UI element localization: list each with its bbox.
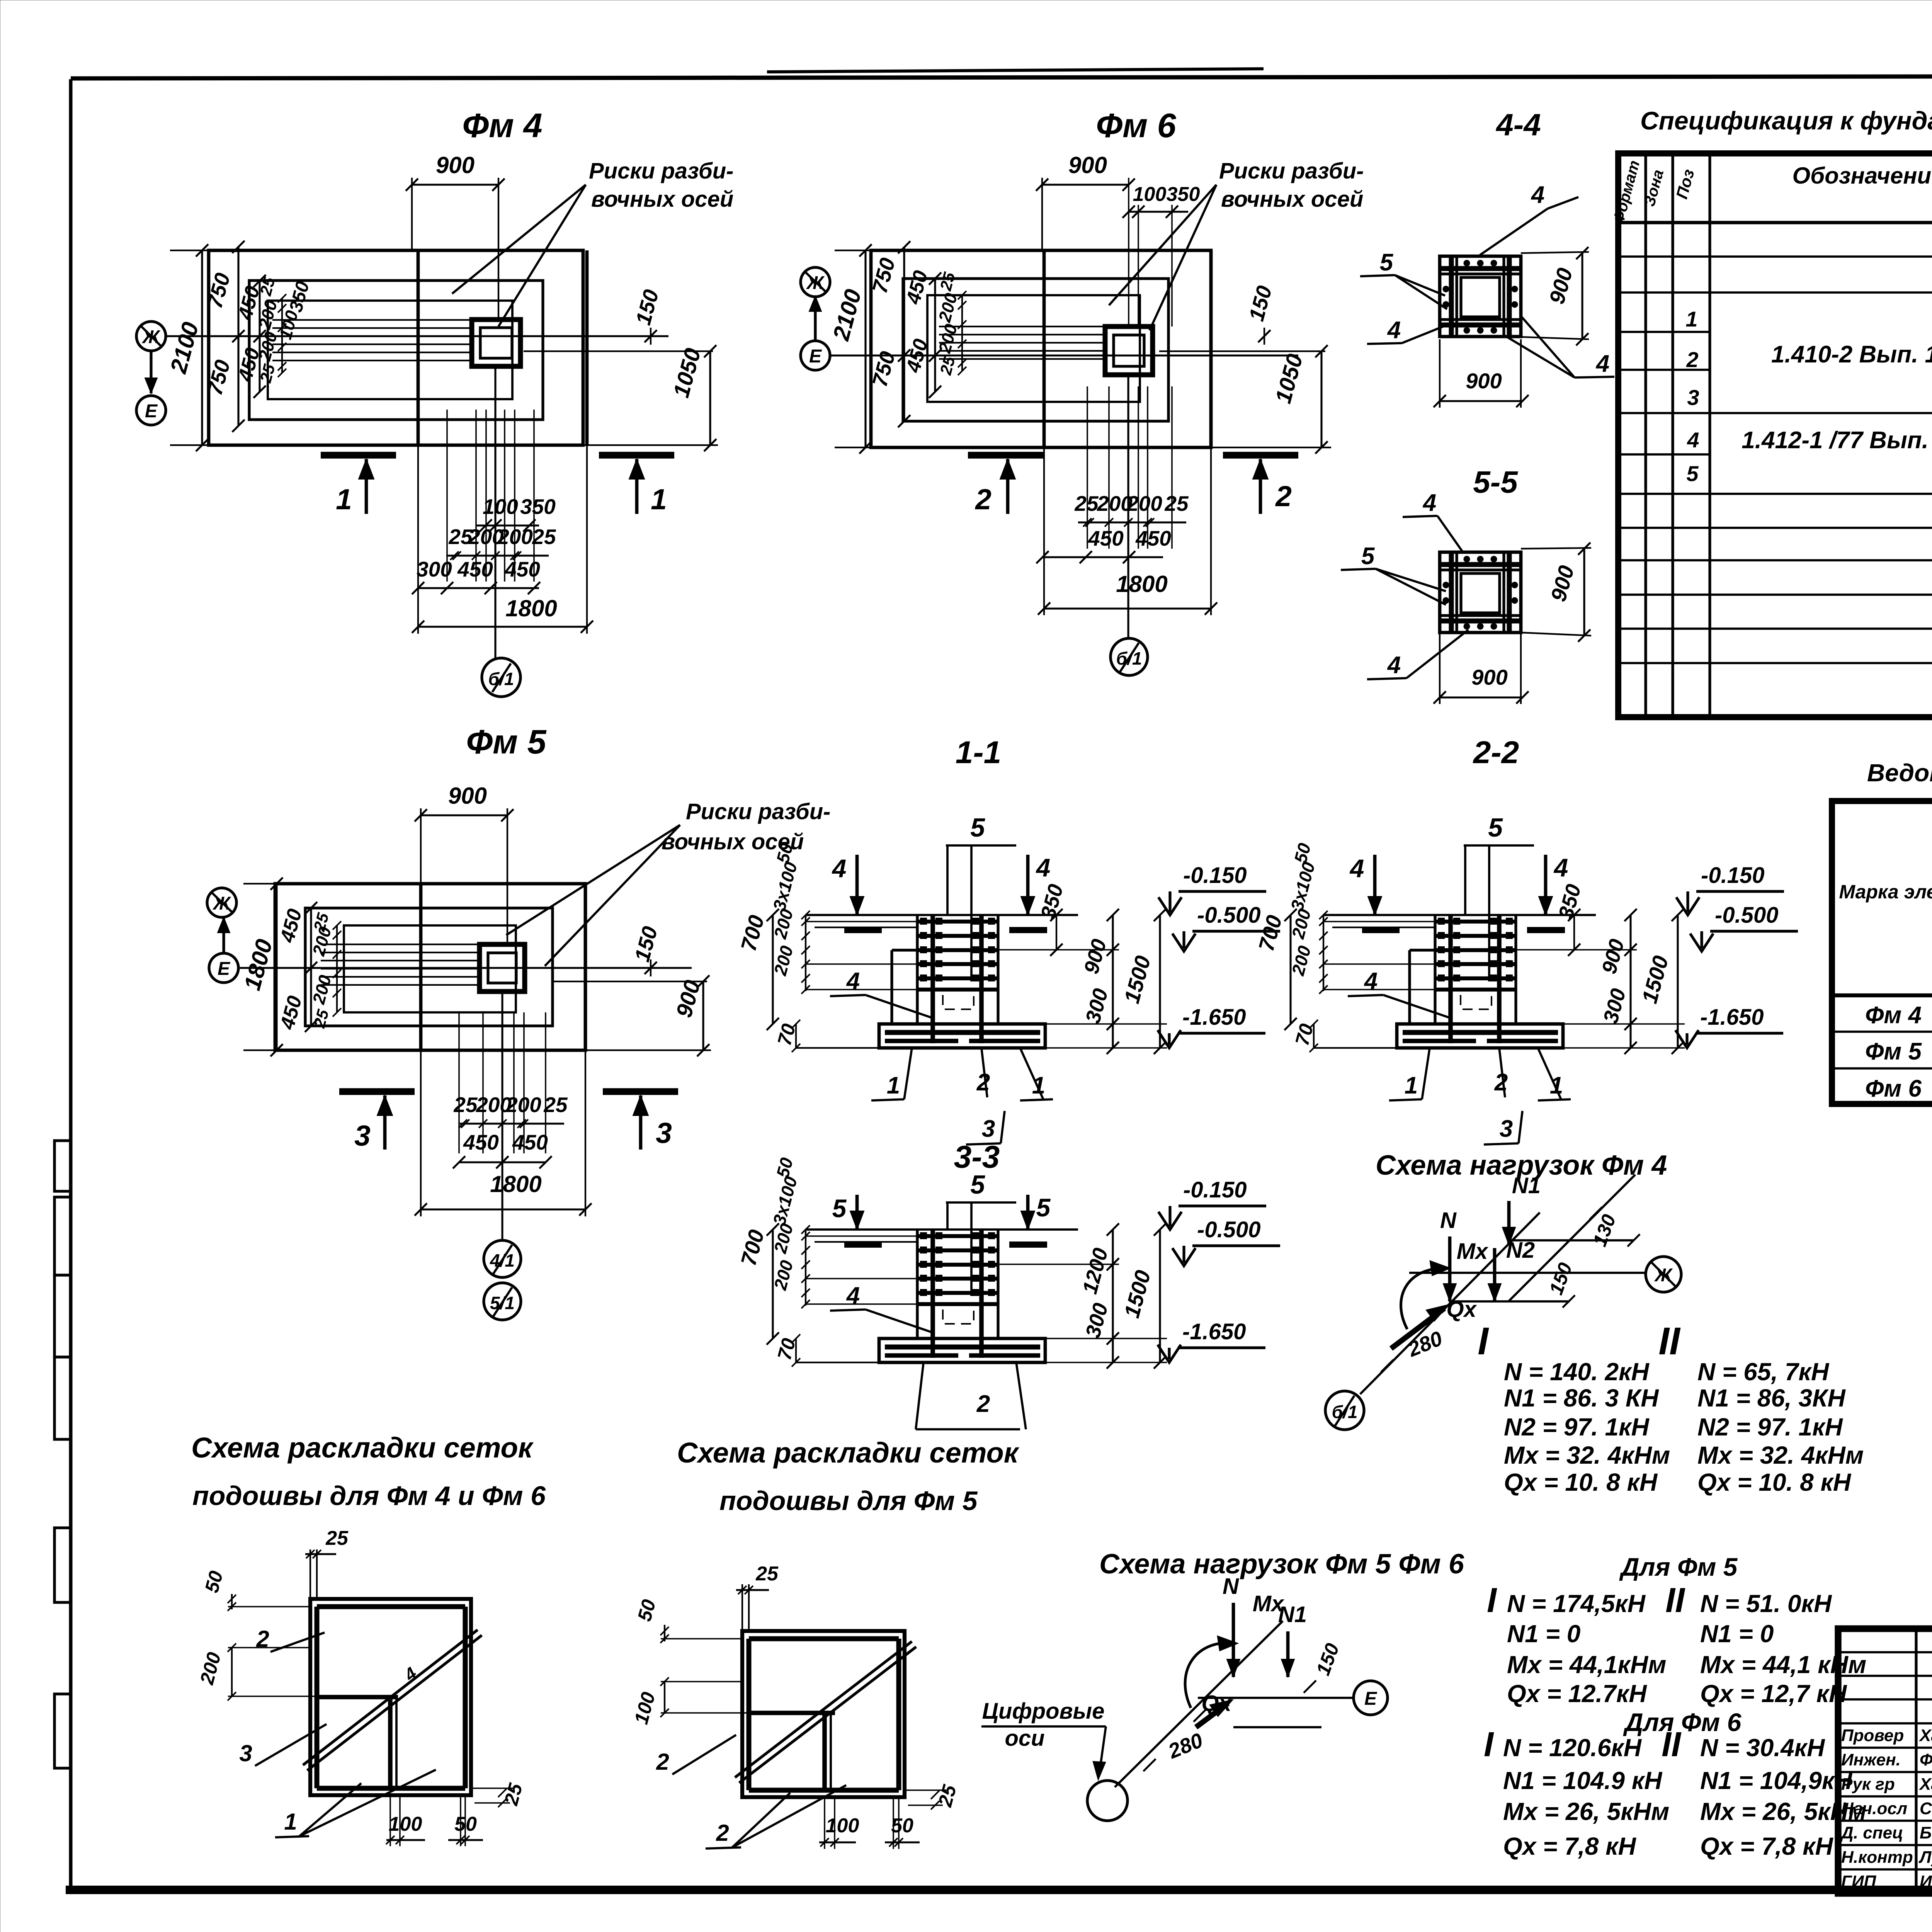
FM6 band right line [1209,250,1213,447]
svg-text:1-1: 1-1 [956,735,1002,770]
svg-text:Риски разби-: Риски разби- [686,799,830,824]
svg-text:Мх = 44,1кНм: Мх = 44,1кНм [1507,1651,1666,1679]
svg-text:Д. спец: Д. спец [1840,1823,1903,1842]
svg-text:Фм 4: Фм 4 [1865,1002,1922,1029]
FM6 axis circle Zh [801,267,830,297]
svg-text:Обозначение: Обозначение [1792,163,1932,189]
FM6 section mark 2 left [968,452,1043,458]
svg-text:4: 4 [1422,490,1436,516]
svg-text:Е: Е [809,346,822,367]
FM4 step rect 2 [268,301,512,399]
svg-text:Мх = 32. 4кНм: Мх = 32. 4кНм [1697,1441,1864,1469]
svg-text:450: 450 [1088,526,1124,550]
svg-text:Е: Е [218,959,231,979]
svg-text:1: 1 [1685,307,1697,331]
svg-text:2: 2 [656,1749,669,1775]
svg-text:2-2: 2-2 [1473,735,1519,770]
ground line top [805,914,1078,916]
svg-text:II: II [1658,1320,1681,1363]
svg-text:200: 200 [1126,492,1162,515]
svg-text:450: 450 [504,557,540,581]
slab mesh bar [885,1345,1040,1350]
svg-text:Ханин: Ханин [1918,1775,1932,1794]
fold marks left edge [54,1141,71,1191]
FM4 axis line horizontal Zh [165,335,668,337]
mesh 3 inner [317,1695,398,1699]
FM5 mesh lines [321,944,480,945]
FM5 step rect 2 [344,925,516,1012]
svg-text:450: 450 [463,1130,499,1154]
svg-text:N: N [1223,1574,1239,1599]
svg-text:подошвы для Фм 5: подошвы для Фм 5 [719,1486,978,1516]
svg-text:I: I [1478,1320,1489,1363]
svg-text:900: 900 [1068,152,1107,178]
svg-text:подошвы для Фм 4 и Фм 6: подошвы для Фм 4 и Фм 6 [192,1481,546,1511]
svg-text:5: 5 [1686,461,1699,486]
svg-text:4-4: 4-4 [1495,107,1541,142]
pedestal step [890,950,893,1024]
svg-text:N = 51. 0кН: N = 51. 0кН [1700,1590,1832,1617]
top border overdraw segment [767,69,1264,72]
svg-text:4: 4 [1036,853,1051,882]
horizontal axis to Zh [1409,1272,1645,1274]
svg-text:II: II [1665,1581,1685,1620]
FM6 section mark 2 right [1223,452,1298,458]
FM5 axis circle Zh [207,888,236,917]
svg-text:N1 = 0: N1 = 0 [1700,1620,1774,1648]
svg-text:Бояченко: Бояченко [1920,1823,1932,1842]
FM4 step rect [249,281,543,420]
svg-text:I: I [1484,1725,1494,1764]
horizontal axis to E [1198,1697,1352,1699]
short horizontal [1233,1726,1321,1728]
svg-text:Ханин: Ханин [1918,1726,1932,1745]
svg-text:4: 4 [1349,854,1364,883]
svg-text:1: 1 [887,1072,900,1099]
diagonal axis with circle [1115,1621,1283,1787]
svg-text:1.410-2 Вып. 1: 1.410-2 Вып. 1 [1771,341,1932,368]
svg-text:N1 = 0: N1 = 0 [1507,1620,1580,1648]
svg-text:Для Фм 5: Для Фм 5 [1619,1553,1738,1581]
svg-text:Федотова: Федотова [1920,1750,1932,1769]
svg-text:N2: N2 [1506,1238,1535,1263]
svg-text:N = 174,5кН: N = 174,5кН [1507,1590,1646,1617]
svg-text:Фм 5: Фм 5 [466,723,546,761]
svg-text:N = 120.6кН: N = 120.6кН [1503,1734,1642,1762]
svg-text:-1.650: -1.650 [1700,1005,1764,1030]
FM4 section mark 1 left [321,452,396,458]
rebar bars [1449,552,1454,633]
ground line top [1323,914,1596,916]
svg-text:4: 4 [846,968,860,995]
svg-text:2: 2 [1494,1069,1508,1096]
svg-text:Мх = 32. 4кНм: Мх = 32. 4кНм [1504,1441,1670,1469]
column rebar cage [916,915,918,1024]
FM6 outer slab rect [871,250,1211,447]
svg-text:-1.650: -1.650 [1182,1005,1246,1030]
svg-text:Qх = 10. 8 кН: Qх = 10. 8 кН [1504,1468,1658,1496]
axis diagonal to b/1 [1360,1213,1540,1394]
mesh outline [742,1631,905,1797]
digit axis circle [1087,1781,1128,1821]
svg-text:1: 1 [284,1809,297,1835]
svg-text:2: 2 [976,1391,990,1417]
FM6 column stub [1105,327,1153,375]
svg-text:4: 4 [1595,350,1609,377]
svg-text:4: 4 [1531,182,1544,208]
svg-text:N1 = 86, 3КН: N1 = 86, 3КН [1697,1384,1846,1412]
FM4 axis circle E [136,396,166,425]
svg-text:Ведомость расхода стали на эл: Ведомость расхода стали на элемент, кг [1867,759,1932,787]
svg-text:1800: 1800 [1116,571,1167,597]
svg-text:Схема раскладки сеток: Схема раскладки сеток [677,1437,1020,1469]
parallelogram lines [1449,1300,1570,1303]
svg-text:N2 = 97. 1кН: N2 = 97. 1кН [1697,1413,1844,1441]
svg-text:оси: оси [1005,1726,1044,1751]
svg-text:II: II [1662,1725,1682,1764]
FM4 section mark 1 right [599,452,674,458]
svg-text:Н.контр: Н.контр [1841,1848,1913,1867]
svg-text:3: 3 [1500,1116,1513,1142]
svg-text:450: 450 [512,1130,548,1154]
svg-text:Qх = 7,8 кН: Qх = 7,8 кН [1700,1832,1834,1860]
svg-text:Qх = 7,8 кН: Qх = 7,8 кН [1503,1832,1637,1860]
svg-text:-0.150: -0.150 [1183,863,1247,888]
svg-text:2: 2 [716,1820,729,1846]
footing slab [879,1338,1045,1362]
FM4 axis circle Zh [136,321,166,351]
svg-text:1: 1 [336,483,352,515]
svg-text:4: 4 [846,1282,860,1309]
svg-text:Инжен.: Инжен. [1841,1750,1901,1769]
svg-text:Для Фм 6: Для Фм 6 [1623,1708,1742,1736]
ved frame [1832,801,1932,1104]
svg-text:Исташевский: Исташевский [1920,1872,1932,1891]
svg-text:25: 25 [532,525,556,549]
svg-text:900: 900 [1471,665,1507,689]
svg-text:-0.500: -0.500 [1197,903,1260,928]
FM4 mesh lines [272,319,471,321]
svg-text:Саакьянц: Саакьянц [1920,1799,1932,1818]
svg-text:5: 5 [1361,543,1375,570]
svg-text:-0.500: -0.500 [1715,903,1778,928]
mesh 4 diagonal [303,1630,478,1765]
svg-text:-0.500: -0.500 [1197,1217,1260,1242]
svg-text:Схема раскладки сеток: Схема раскладки сеток [191,1432,534,1464]
svg-text:100: 100 [826,1815,859,1837]
svg-text:900: 900 [1466,369,1502,393]
rebar bars [1449,256,1454,337]
FM6 axis line vertical b/1 [1127,375,1129,638]
svg-text:1800: 1800 [505,595,557,621]
svg-text:N1 = 104.9 кН: N1 = 104.9 кН [1503,1767,1663,1794]
FM6 step rect [903,279,1168,421]
svg-text:4: 4 [1553,853,1568,882]
svg-text:Рук гр: Рук гр [1841,1775,1895,1794]
svg-text:I: I [1487,1581,1497,1620]
FM5 column stub [480,944,525,992]
FM4 band right line [585,250,589,445]
svg-text:1: 1 [651,483,667,515]
svg-text:N: N [1440,1208,1457,1233]
FM5 band left line [419,884,423,1050]
svg-text:3: 3 [354,1119,371,1152]
svg-text:25: 25 [325,1527,349,1549]
spec header bottom [1618,221,1932,224]
column rebar cage [916,1230,918,1338]
FM6 axis circle E [801,341,830,370]
svg-text:25: 25 [755,1563,779,1585]
FM5 outer slab rect [275,884,585,1050]
FM5 section mark 3 left [339,1088,415,1095]
spec table frame [1618,153,1932,717]
svg-text:N = 65, 7кН: N = 65, 7кН [1697,1358,1830,1386]
svg-text:5-5: 5-5 [1473,465,1518,499]
svg-text:1: 1 [1405,1072,1418,1099]
inner mesh lines [749,1711,835,1715]
svg-text:4: 4 [1387,652,1401,679]
signature columns [1915,1629,1917,1893]
svg-text:3: 3 [1687,385,1699,410]
svg-text:Марка элемента: Марка элемента [1839,881,1932,903]
svg-text:-0.150: -0.150 [1701,863,1764,888]
FM6 axis line horizontal E [829,354,1298,356]
svg-text:Спецификация к фундаментам: Спецификация к фундаментам Фм 4 - Фм 6 [1640,106,1932,135]
svg-text:Риски разби-: Риски разби- [589,158,733,184]
svg-text:50: 50 [891,1815,913,1837]
slab mesh bar [885,1030,1040,1035]
svg-text:Мх = 26, 5кНм: Мх = 26, 5кНм [1503,1798,1669,1825]
svg-text:5: 5 [970,813,985,842]
FM6 step rect 2 [927,295,1140,402]
pedestal step [1408,950,1411,1024]
svg-text:4: 4 [1687,428,1699,452]
svg-text:4: 4 [1364,968,1378,995]
svg-text:Схема нагрузок Фм 5 Фм 6: Схема нагрузок Фм 5 Фм 6 [1099,1549,1464,1580]
svg-text:2: 2 [1686,347,1698,372]
svg-text:450: 450 [457,557,493,581]
svg-text:900: 900 [436,152,474,178]
svg-text:N1 = 86. 3 КН: N1 = 86. 3 КН [1504,1384,1659,1412]
svg-text:450: 450 [1135,526,1171,550]
svg-text:Qх = 12,7 кН: Qх = 12,7 кН [1700,1680,1847,1708]
svg-text:1.412-1 /77 Вып. 3: 1.412-1 /77 Вып. 3 [1742,427,1932,454]
svg-text:Риски разби-: Риски разби- [1219,158,1364,184]
svg-text:Нач.осл: Нач.осл [1841,1799,1907,1818]
svg-text:Фм 5: Фм 5 [1865,1038,1922,1065]
svg-text:25: 25 [453,1093,478,1117]
FM4 axis line vertical b/1 [494,366,496,659]
svg-text:Фм 4: Фм 4 [462,106,542,145]
FM4 axis circle b/1 [482,658,520,697]
footing slab [1397,1024,1563,1048]
ground line top [805,1228,1078,1231]
svg-text:вочных осей: вочных осей [1221,187,1363,212]
FM6 band left line [1043,250,1046,447]
svg-text:100: 100 [483,495,518,519]
svg-text:5: 5 [970,1170,985,1199]
footing slab [879,1024,1045,1048]
svg-text:4: 4 [832,854,847,883]
svg-text:100: 100 [1133,183,1167,206]
svg-text:N = 30.4кН: N = 30.4кН [1700,1734,1825,1762]
slab mesh bar [1403,1030,1558,1035]
axis circle b/1 [1325,1391,1364,1430]
column rebar cage [1434,915,1436,1024]
svg-text:N1: N1 [1512,1173,1541,1198]
svg-text:-1.650: -1.650 [1182,1319,1246,1344]
FM5 axis circle 5/1 [484,1283,521,1320]
svg-text:-0.150: -0.150 [1183,1177,1247,1202]
FM5 axis line vertical [501,992,503,1240]
FM4 band left line [417,250,420,445]
svg-text:Провер: Провер [1841,1726,1904,1745]
FM6 axis circle b/1 [1111,638,1148,675]
svg-text:350: 350 [1167,183,1200,206]
FM5 axis circle E [209,953,238,983]
svg-text:5: 5 [832,1194,847,1223]
svg-text:3: 3 [982,1116,995,1142]
FM5 axis circle 4/1 [484,1240,521,1277]
svg-text:2: 2 [976,1069,990,1096]
FM4 outer slab rect [209,250,583,445]
svg-text:1800: 1800 [490,1171,541,1197]
svg-text:3: 3 [239,1740,252,1766]
svg-text:N2 = 97. 1кН: N2 = 97. 1кН [1504,1413,1650,1441]
FM6 mesh lines [939,326,1105,327]
svg-text:Фм 6: Фм 6 [1096,106,1176,145]
svg-text:25: 25 [543,1093,568,1117]
axis circle E [1354,1681,1388,1715]
sheet border frame [69,79,73,1891]
svg-text:Е: Е [1364,1689,1378,1709]
svg-text:100: 100 [389,1813,422,1835]
svg-text:Qх = 10. 8 кН: Qх = 10. 8 кН [1697,1468,1852,1496]
svg-text:ГИП: ГИП [1841,1872,1877,1891]
svg-text:3-3: 3-3 [954,1139,1000,1175]
FM5 band right line [584,884,587,1050]
svg-text:Фм 6: Фм 6 [1865,1075,1922,1102]
FM4 column stub [472,320,520,366]
svg-text:Луценко: Луценко [1918,1848,1932,1867]
mesh outline [310,1599,471,1795]
svg-text:Qх: Qх [1446,1297,1477,1322]
svg-text:вочных осей: вочных осей [591,187,733,212]
FM5 axis line horizontal E [238,967,692,969]
FM5 step rect [305,908,553,1026]
svg-text:Мх: Мх [1457,1239,1489,1264]
svg-text:5: 5 [1380,249,1394,276]
svg-text:4: 4 [1387,317,1401,344]
svg-text:3: 3 [656,1117,672,1149]
svg-text:5: 5 [1488,813,1503,842]
svg-text:25: 25 [1164,492,1189,515]
svg-text:5: 5 [1036,1193,1051,1222]
svg-text:Цифровые: Цифровые [982,1699,1105,1724]
svg-text:2: 2 [975,483,992,515]
svg-text:350: 350 [520,495,556,519]
axis circle Zh [1646,1257,1681,1292]
FM5 section mark 3 right [603,1088,678,1095]
diagonal mesh [735,1641,912,1777]
svg-text:Qх = 12.7кН: Qх = 12.7кН [1507,1680,1647,1708]
svg-text:2: 2 [1275,480,1292,512]
svg-text:N1 = 104,9кН: N1 = 104,9кН [1700,1767,1853,1794]
svg-text:N = 140. 2кН: N = 140. 2кН [1504,1358,1650,1386]
svg-text:Мх: Мх [1253,1591,1285,1616]
svg-text:900: 900 [448,783,487,809]
svg-text:Е: Е [145,401,158,422]
